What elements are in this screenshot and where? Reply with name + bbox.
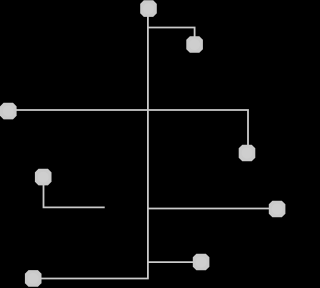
node G inner highlight: [196, 257, 207, 268]
node E: [35, 169, 52, 186]
node G: [193, 254, 210, 271]
node D: [239, 145, 256, 162]
wire spine from node A down and left to node H: [33, 9, 148, 279]
wire branch to node B: [148, 28, 195, 45]
node H: [25, 270, 42, 287]
wire branch to node G: [148, 261, 201, 263]
node A inner highlight: [143, 3, 154, 14]
node B inner highlight: [189, 39, 200, 50]
node B: [186, 36, 203, 53]
wire branch to node F: [148, 208, 277, 210]
node A: [140, 0, 157, 17]
node C inner highlight: [3, 106, 14, 117]
node D inner highlight: [242, 148, 253, 159]
node H inner highlight: [28, 273, 39, 284]
node E inner highlight: [38, 172, 49, 183]
wire from node C to node D: [8, 110, 248, 153]
node C: [0, 103, 17, 120]
wire stub from node E: [44, 177, 105, 207]
node F inner highlight: [272, 204, 283, 215]
node F: [269, 201, 286, 218]
